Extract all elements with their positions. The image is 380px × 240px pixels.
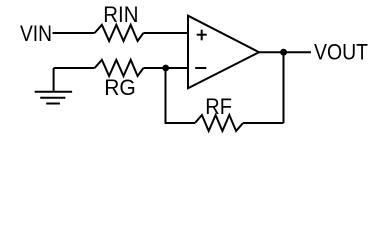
junction node A	[162, 65, 169, 72]
resistor RF	[195, 115, 243, 131]
wire ground to RG	[54, 67, 95, 69]
wire op-amp output to VOUT	[259, 51, 311, 53]
svg-text:VIN: VIN	[20, 21, 52, 46]
svg-text:VOUT: VOUT	[314, 40, 368, 65]
wire feedback up to output node	[283, 52, 285, 123]
wire node A down to feedback	[165, 68, 167, 123]
op-amp U1	[188, 16, 259, 89]
wire RG to node A	[143, 67, 165, 69]
wire node A to op-amp - input	[166, 67, 189, 69]
resistor RIN	[95, 25, 144, 41]
wire VIN to RIN	[53, 32, 95, 34]
ground	[35, 68, 72, 104]
wire feedback bottom left to RF	[165, 122, 196, 124]
svg-text:RIN: RIN	[103, 2, 138, 27]
op-amp + input marker	[197, 30, 207, 41]
svg-text:RG: RG	[104, 75, 136, 100]
resistor RG	[95, 60, 144, 76]
junction output node	[280, 49, 287, 56]
svg-text:RF: RF	[205, 94, 232, 119]
op-amp - input marker	[195, 67, 206, 69]
wire RF to output branch	[243, 122, 284, 124]
wire RIN to op-amp + input	[143, 32, 188, 34]
